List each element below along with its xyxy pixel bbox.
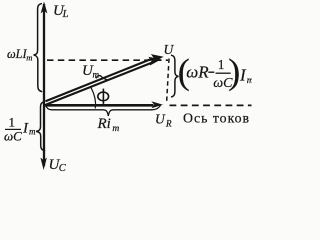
brace right (reactive component) (172, 55, 179, 97)
minus sign (208, 71, 214, 73)
svg-text:ωLI: ωLI (7, 47, 28, 61)
under-brace for R i_m (46, 104, 162, 116)
vector U_m arrowhead (lower, merged) (148, 57, 161, 66)
svg-text:C: C (59, 163, 67, 174)
svg-text:1: 1 (9, 114, 16, 129)
svg-text:I: I (22, 121, 29, 137)
svg-text:ωC: ωC (4, 128, 22, 143)
axis arrowhead down (U_C direction) (40, 158, 47, 171)
svg-text:L: L (62, 9, 69, 20)
vector U_m lower stroke (46, 63, 152, 105)
angle arc phi (91, 87, 96, 108)
svg-text:m: m (112, 124, 119, 134)
dashed vertical drop from U tip (167, 59, 169, 104)
svg-text:R: R (165, 119, 172, 129)
svg-text:Ri: Ri (97, 116, 111, 132)
svg-text:1: 1 (218, 57, 225, 72)
svg-text:Ось токов: Ось токов (183, 111, 250, 126)
svg-text:): ) (228, 52, 240, 92)
dashed current axis continuation (170, 104, 252, 106)
svg-text:m: m (26, 52, 32, 62)
brace left-top (omega L I_m) (34, 4, 42, 92)
vector U_m upper stroke (46, 59, 152, 101)
svg-text:ωR: ωR (186, 63, 209, 82)
svg-text:U: U (155, 111, 166, 126)
vector U_R shaft (horizontal) (44, 104, 154, 107)
svg-text:m: m (247, 76, 252, 86)
phi glyph loop (98, 92, 109, 101)
brace left-bottom (1/(omega C) I_m) (36, 102, 44, 151)
pointer squiggle under U_m (96, 76, 108, 80)
phi glyph stem (102, 89, 104, 104)
vector U_R arrowhead (151, 101, 163, 108)
axis arrowhead up (U_L direction) (41, 2, 48, 14)
vertical axis shaft (43, 4, 45, 166)
dashed level line at U tip (top) (47, 59, 168, 61)
vector U arrowhead (upper) (151, 54, 164, 63)
svg-text:m: m (29, 127, 36, 137)
svg-text:U: U (164, 42, 175, 57)
